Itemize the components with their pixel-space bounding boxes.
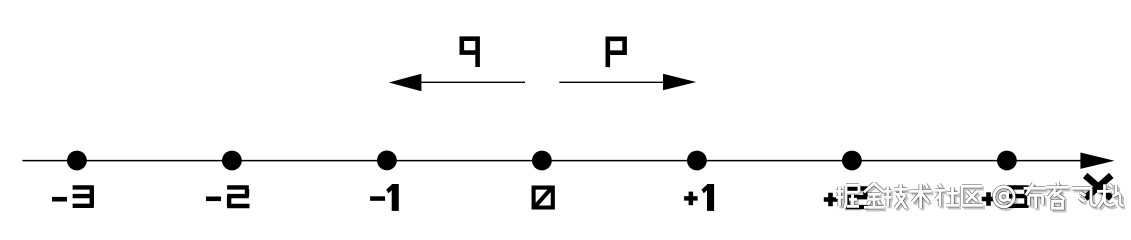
point +1	[687, 151, 707, 171]
label 0	[534, 188, 553, 208]
axis label x (partly behind watermark)	[1085, 175, 1111, 198]
label +1	[684, 184, 714, 211]
point 0	[532, 151, 552, 171]
p label	[608, 39, 625, 67]
q arrow (pointing left)	[421, 81, 525, 83]
label +2 (partly behind watermark)	[824, 189, 868, 208]
point -1	[377, 151, 397, 171]
number line axis	[22, 160, 1082, 162]
label -3	[52, 187, 94, 205]
watermark shadow layer	[838, 184, 1125, 210]
label +3 (partly behind watermark)	[982, 187, 1029, 205]
point -2	[222, 151, 242, 171]
watermark outline layer	[836, 182, 1123, 208]
point -3	[67, 151, 87, 171]
p arrow (pointing right)	[559, 81, 664, 83]
watermark white core layer	[836, 182, 1123, 208]
point +3	[997, 151, 1017, 171]
point +2	[842, 151, 862, 171]
axis arrowhead	[1080, 153, 1114, 169]
q label	[462, 39, 478, 67]
label -2	[206, 187, 250, 206]
label -1	[370, 184, 399, 211]
